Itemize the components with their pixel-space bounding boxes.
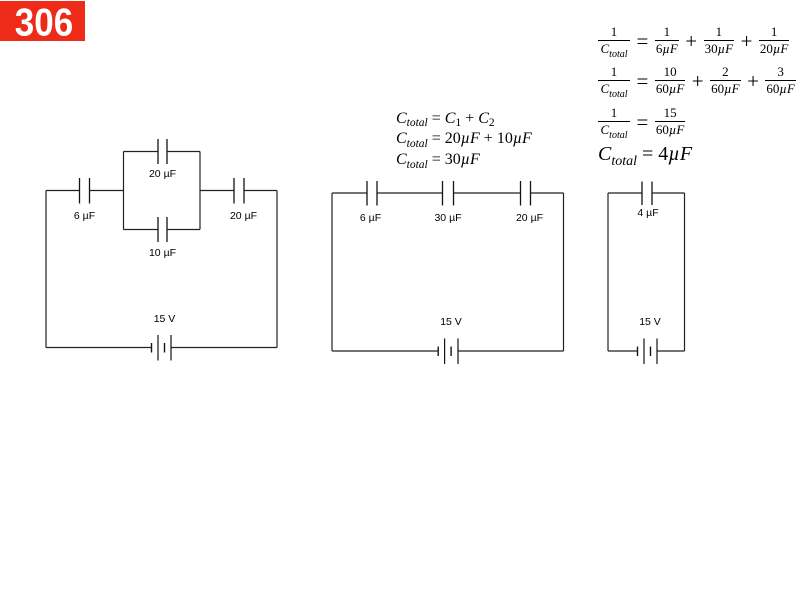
- wire: c2 top segment 4: [531, 192, 564, 194]
- equation Ctotal = C1 + C2: [396, 110, 495, 128]
- battery 15 V (c3): [638, 339, 658, 365]
- wire: c1 left edge: [45, 191, 47, 348]
- label 20 uF (c1 parallel top): [149, 168, 176, 180]
- wire: c3 bottom left segment: [608, 350, 638, 352]
- label 20 uF (c2): [516, 212, 543, 224]
- wire: c1 inner box top edge left part: [124, 151, 159, 153]
- equation 1/Ctotal = 10/60uF + 2/60uF + 3/60uF: [598, 64, 796, 97]
- equation Ctotal = 4uF: [598, 143, 692, 166]
- wire: c2 right edge: [563, 193, 565, 351]
- capacitor 6 uF (c2): [367, 181, 377, 206]
- wire: c1 inner box left edge: [123, 152, 125, 230]
- label 15 V (c2): [440, 316, 462, 328]
- equation 1/Ctotal = 15/60uF: [598, 105, 685, 138]
- wire: c1 inner box right edge: [199, 152, 201, 230]
- capacitor 4 uF (c3): [642, 182, 652, 206]
- wire: c1 bottom left segment: [46, 347, 152, 349]
- wire: c2 top segment 2: [377, 192, 443, 194]
- label 20 uF (c1 right): [230, 210, 257, 222]
- label 30 uF (c2): [434, 212, 461, 224]
- wire: c1 inner box bottom edge left part: [124, 229, 159, 231]
- wire: c1 inner box top edge right part: [167, 151, 200, 153]
- equation 1/Ctotal = 1/6uF + 1/30uF + 1/20uF: [598, 24, 789, 57]
- wire: c1 top-right segment: [244, 190, 277, 192]
- label 10 uF (c1 parallel bottom): [149, 247, 176, 259]
- wire: c1 bottom right segment: [171, 347, 277, 349]
- wire: c3 right edge: [684, 193, 686, 351]
- capacitor 20 uF (c1 parallel top): [158, 139, 167, 164]
- battery 15 V (c2): [438, 339, 458, 365]
- wire: c3 bottom right segment: [657, 350, 685, 352]
- battery 15 V (c1): [152, 335, 172, 361]
- wire: c3 top segment 2: [652, 192, 685, 194]
- wire: c2 left edge: [331, 193, 333, 351]
- capacitor 10 uF (c1 parallel bottom): [158, 217, 167, 242]
- capacitor 20 uF (c2): [521, 181, 531, 206]
- capacitor 6 uF (c1 left): [80, 178, 90, 204]
- wire: c1 inner box bottom edge right part: [167, 229, 200, 231]
- wire: c2 top segment 1: [332, 192, 367, 194]
- wire: c3 top segment 1: [608, 192, 642, 194]
- label 15 V (c3): [639, 316, 661, 328]
- equation Ctotal = 30uF: [396, 151, 480, 169]
- label 6 uF (c2): [360, 212, 381, 224]
- wire: c2 bottom right segment: [458, 350, 564, 352]
- wire: c1 right edge: [276, 191, 278, 348]
- capacitor 20 uF (c1 right): [234, 178, 244, 204]
- wire: c1 top-left segment: [46, 190, 80, 192]
- page number text 306: [0, 1, 85, 46]
- wire: c1 segment to inner box: [90, 190, 124, 192]
- wire: c1 segment inner box to right cap: [200, 190, 234, 192]
- label 15 V (c1): [154, 313, 176, 325]
- page number badge: [0, 1, 85, 41]
- equation Ctotal = 20uF + 10uF: [396, 130, 532, 148]
- wire: c2 top segment 3: [454, 192, 521, 194]
- label 4 uF (c3): [637, 207, 658, 219]
- label 6 uF (c1): [74, 210, 95, 222]
- capacitor 30 uF (c2): [443, 181, 454, 206]
- wire: c2 bottom left segment: [332, 350, 438, 352]
- wire: c3 left edge: [607, 193, 609, 351]
